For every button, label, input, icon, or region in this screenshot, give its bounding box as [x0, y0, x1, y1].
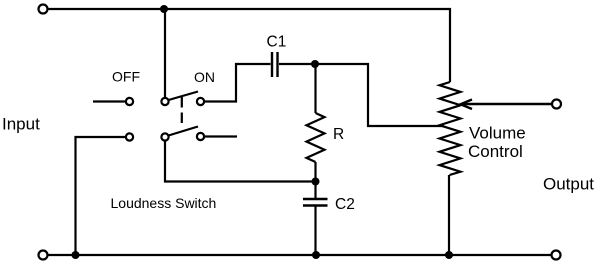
- wire switch S1B pole to node B: [165, 141, 316, 182]
- potentiometer wiper arrow: [461, 100, 553, 110]
- svg-text:Output: Output: [543, 175, 594, 194]
- node bottom-left junction: [72, 251, 80, 259]
- wire C2 to bottom rail: [314, 206, 316, 256]
- node top-rail junction: [160, 5, 168, 13]
- svg-text:Control: Control: [468, 142, 523, 161]
- switch S1A blade: [169, 92, 199, 101]
- wire top rail: [48, 9, 451, 82]
- switch S1B left contact: [126, 133, 133, 140]
- node B (R / C2 / switch junction): [312, 178, 320, 186]
- svg-text:Input: Input: [2, 115, 40, 134]
- node A (C1 / R junction): [311, 60, 319, 68]
- svg-text:R: R: [333, 126, 344, 143]
- svg-text:Loudness Switch: Loudness Switch: [111, 195, 217, 211]
- wire top rail to switch S1A pole: [164, 9, 166, 98]
- switch S1A pole contact: [161, 98, 168, 105]
- label Volume Control: [468, 124, 526, 162]
- input bottom terminal: [39, 251, 48, 260]
- output bottom terminal: [552, 251, 561, 260]
- svg-text:Volume: Volume: [469, 124, 526, 143]
- node C2 bottom-rail junction: [312, 251, 320, 259]
- wire R to node B: [314, 162, 316, 199]
- capacitor C2: [303, 199, 328, 206]
- switch S1B blade: [169, 127, 199, 136]
- input top terminal: [39, 5, 48, 14]
- wire node A to volume control tap: [316, 64, 445, 126]
- svg-text:C2: C2: [335, 196, 355, 213]
- switch S1B pole contact: [161, 133, 168, 140]
- wire C1 to node A: [279, 63, 316, 65]
- switch S1A OFF stub wire: [93, 100, 126, 102]
- svg-text:C1: C1: [267, 34, 287, 51]
- switch S1B ON contact: [197, 133, 204, 140]
- switch mechanical link (dashed): [181, 97, 183, 123]
- wire bottom rail: [48, 254, 552, 256]
- capacitor C1: [272, 52, 278, 77]
- wire S1A ON contact to C1: [205, 64, 271, 102]
- wire bottom rail to switch S1B left contact: [76, 137, 126, 255]
- resistor R: [307, 113, 325, 162]
- output wiper terminal: [552, 100, 561, 109]
- node volume-control bottom-rail junction: [445, 251, 453, 259]
- switch S1A ON contact: [197, 98, 204, 105]
- wire volume control bottom to bottom rail: [448, 175, 450, 255]
- switch S1B ON stub wire: [205, 135, 238, 137]
- switch S1A OFF contact: [126, 98, 133, 105]
- wire node A to resistor R: [314, 64, 316, 113]
- svg-text:ON: ON: [194, 69, 215, 85]
- potentiometer volume control body: [440, 82, 461, 175]
- svg-text:OFF: OFF: [112, 69, 140, 85]
